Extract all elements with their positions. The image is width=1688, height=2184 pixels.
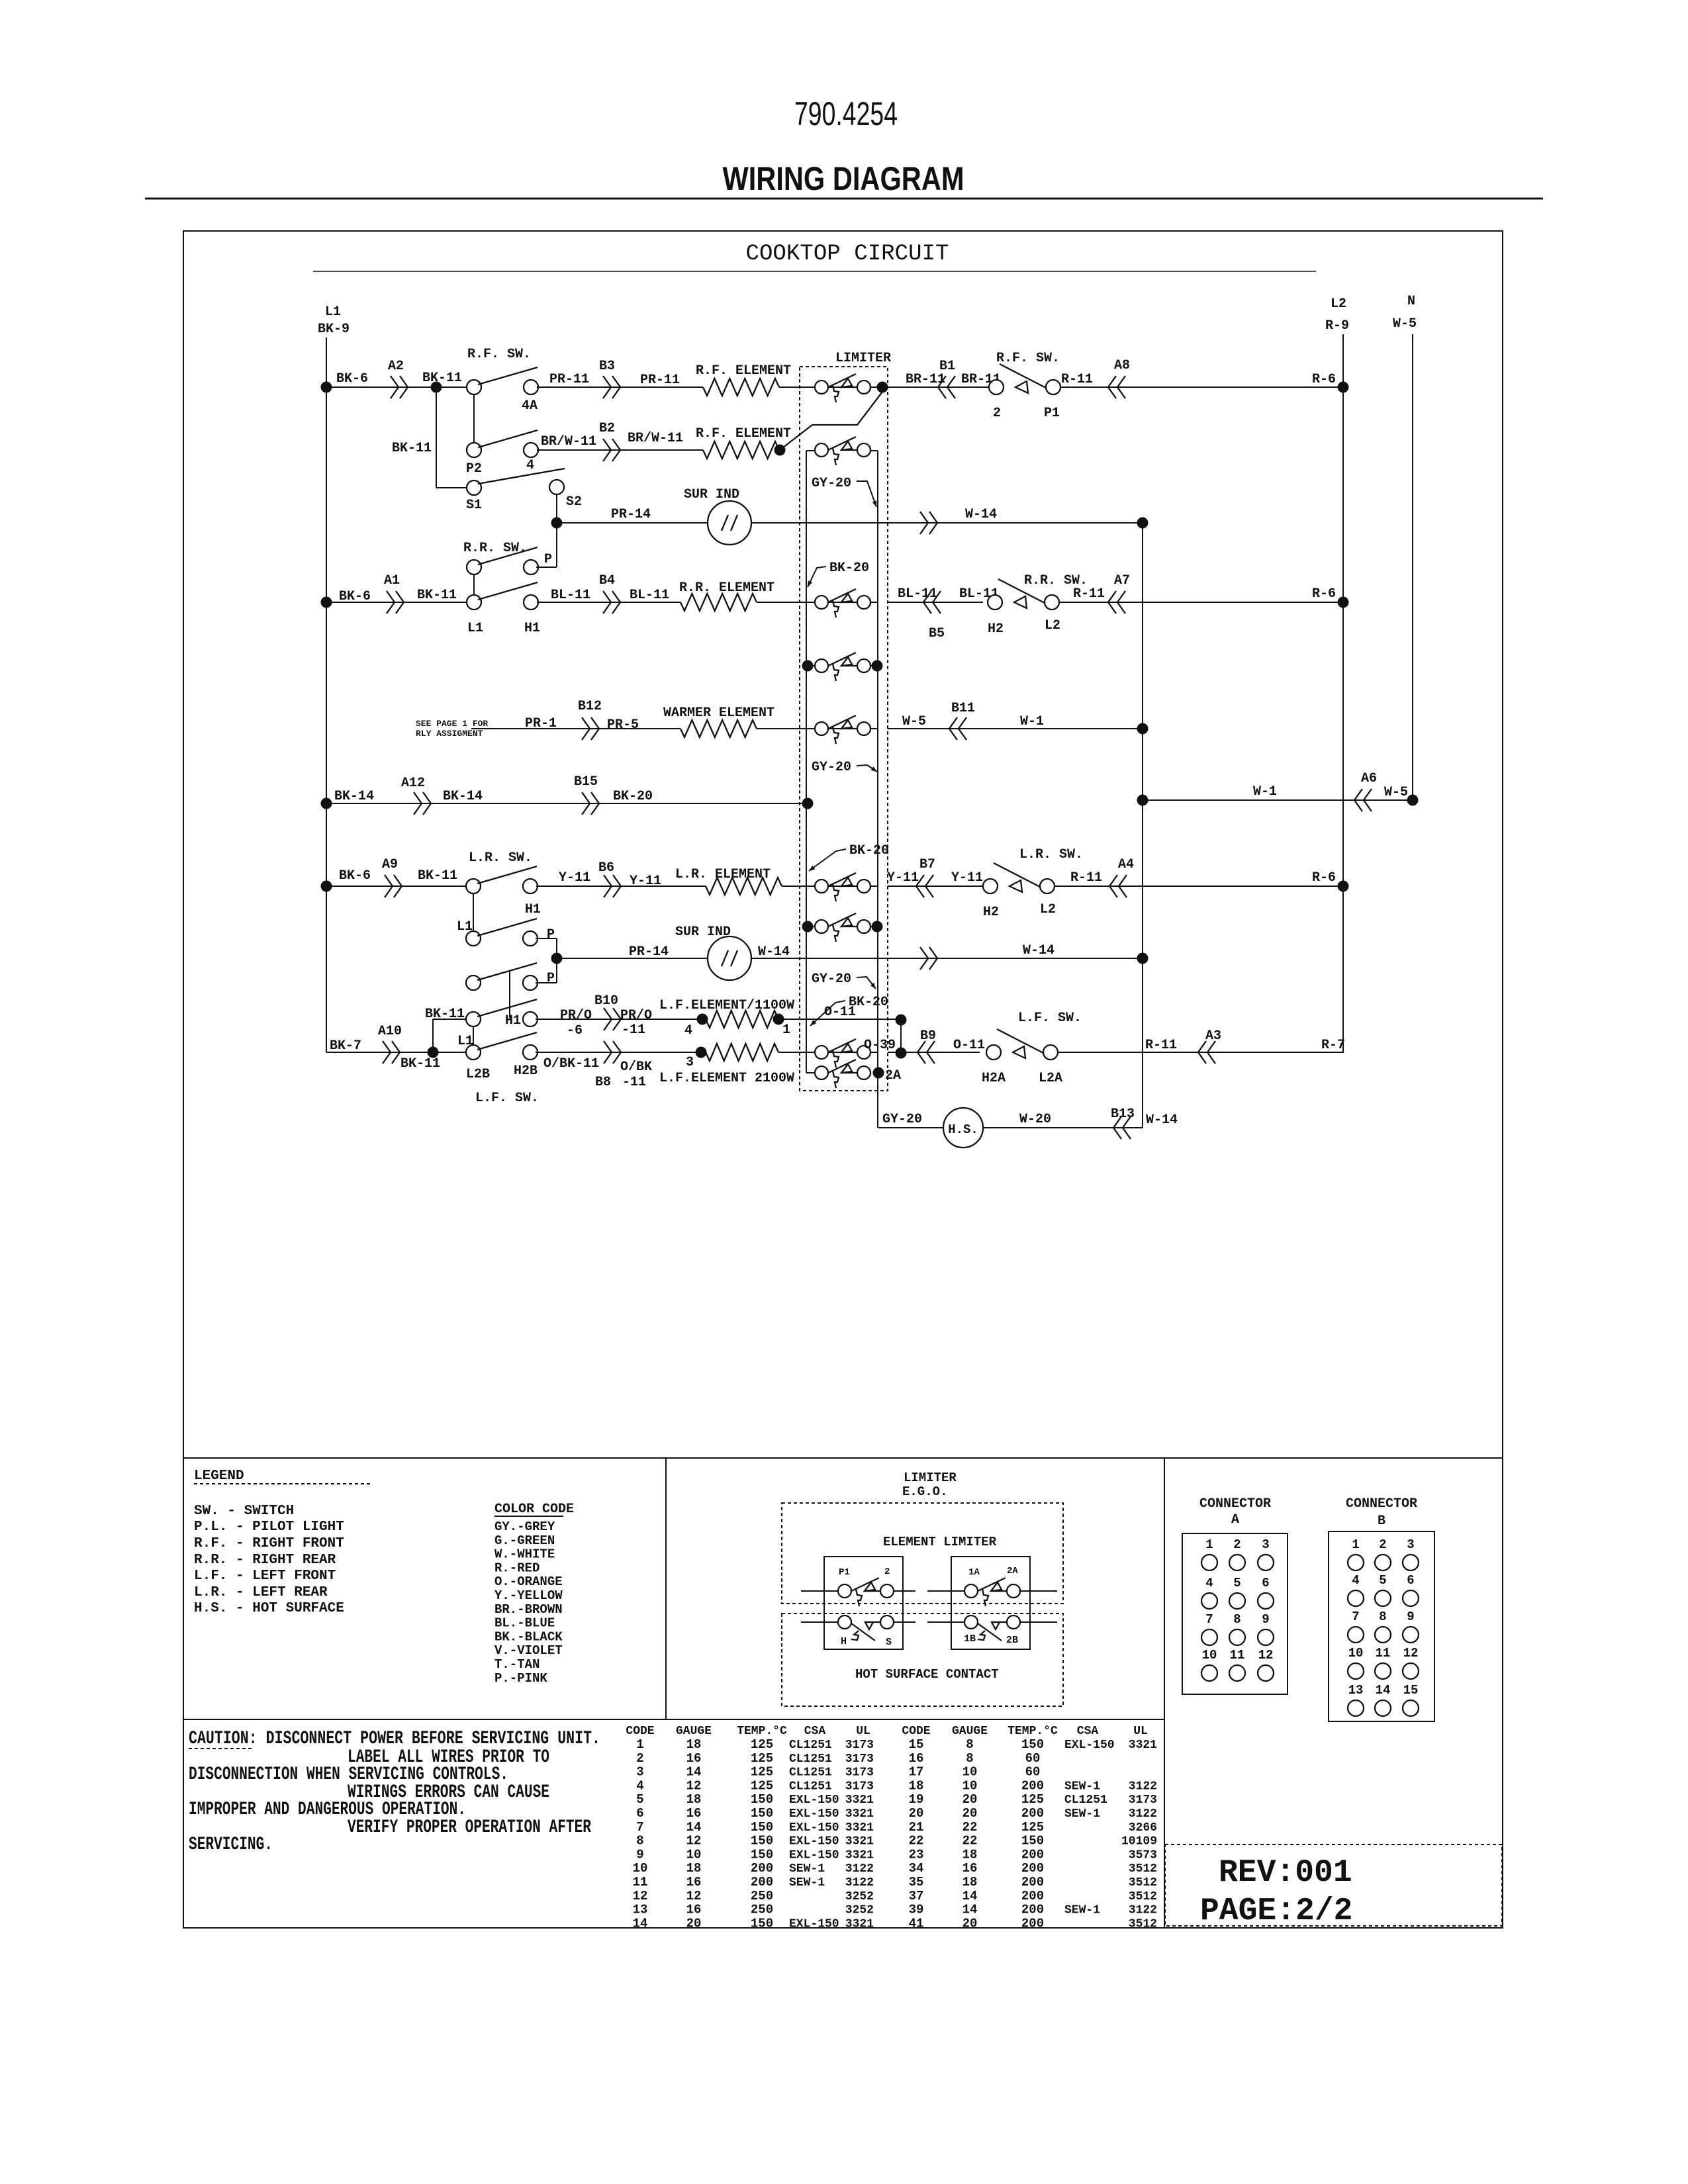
- svg-text:CONNECTOR: CONNECTOR: [1199, 1496, 1271, 1512]
- svg-text:R-11: R-11: [1061, 372, 1093, 387]
- svg-text:CODE: CODE: [626, 1725, 654, 1738]
- connector A1: [387, 591, 404, 614]
- svg-text:125: 125: [751, 1778, 773, 1793]
- svg-text:3173: 3173: [845, 1780, 874, 1793]
- svg-text:150: 150: [751, 1847, 773, 1862]
- svg-text:R.R. - RIGHT REAR: R.R. - RIGHT REAR: [194, 1553, 336, 1568]
- svg-text:1: 1: [782, 1023, 790, 1038]
- svg-text:SERVICING.: SERVICING.: [189, 1835, 273, 1855]
- svg-text:L1: L1: [457, 1034, 473, 1049]
- svg-text:125: 125: [751, 1765, 773, 1780]
- svg-text:A3: A3: [1205, 1028, 1221, 1044]
- svg-text:L2: L2: [1331, 296, 1346, 312]
- svg-text:200: 200: [1021, 1847, 1044, 1862]
- svg-text:3: 3: [636, 1765, 643, 1780]
- connector B2: [603, 439, 620, 461]
- svg-text:250: 250: [751, 1889, 773, 1903]
- svg-text:W-5: W-5: [1384, 785, 1408, 800]
- junction BR-11 row1: [877, 382, 888, 393]
- svg-text:BK-11: BK-11: [400, 1056, 440, 1071]
- switch R.R. SW. main contacts L1/H1: [467, 595, 481, 610]
- svg-text:BK-9: BK-9: [318, 322, 350, 337]
- svg-text:GAUGE: GAUGE: [676, 1725, 712, 1738]
- wire GY-20 to H.S.: [878, 1127, 944, 1128]
- svg-text:CL1251: CL1251: [789, 1780, 832, 1793]
- svg-text:B2: B2: [599, 421, 615, 436]
- wire BR/W-11 row2: [537, 449, 703, 451]
- svg-text:L2A: L2A: [1039, 1071, 1062, 1086]
- indicator H.S. hot surface lamp: [943, 1108, 983, 1148]
- svg-text:15: 15: [1403, 1683, 1419, 1698]
- svg-text:R-11: R-11: [1070, 870, 1102, 886]
- limiter inner box right edge: [877, 451, 878, 1128]
- junction pin 4 L.F.1100: [697, 1014, 708, 1025]
- wire mid W bus vertical: [1142, 523, 1143, 1128]
- junction 2A: [873, 1068, 884, 1079]
- svg-text:-6: -6: [567, 1023, 583, 1038]
- switch S1/S2: [467, 480, 481, 495]
- wire O-11 L.F.1100 output: [778, 1019, 901, 1020]
- connector B9: [917, 1041, 935, 1064]
- connector A8: [1108, 376, 1125, 398]
- svg-text:125: 125: [751, 1751, 773, 1766]
- svg-text:3: 3: [1262, 1537, 1269, 1552]
- svg-text:L1: L1: [325, 304, 341, 320]
- limiter contact warmer: [815, 722, 828, 735]
- svg-text:4: 4: [526, 458, 534, 473]
- wire stub 2A left: [806, 1072, 816, 1073]
- svg-text:CL1251: CL1251: [789, 1752, 832, 1766]
- svg-text:12: 12: [1403, 1646, 1419, 1661]
- wire BK-6 L.R.: [326, 886, 466, 887]
- svg-text:P1: P1: [1044, 406, 1060, 421]
- svg-text:A1: A1: [384, 573, 400, 588]
- junction L1/BK-6 row1: [321, 382, 332, 393]
- connector A10: [383, 1041, 400, 1064]
- svg-text:18: 18: [686, 1861, 702, 1876]
- svg-text:R-11: R-11: [1073, 586, 1105, 602]
- svg-text:BK-20: BK-20: [613, 789, 653, 804]
- svg-text:R.F. ELEMENT: R.F. ELEMENT: [696, 426, 791, 441]
- svg-text:7: 7: [1352, 1610, 1359, 1624]
- svg-text:3512: 3512: [1129, 1862, 1157, 1876]
- connector B5: [923, 591, 941, 614]
- wire BK-7 from L1 bus: [326, 1052, 466, 1053]
- svg-text:Y.-YELLOW: Y.-YELLOW: [494, 1588, 563, 1603]
- svg-text:BK-11: BK-11: [417, 588, 457, 603]
- svg-text:BK.-BLACK: BK.-BLACK: [494, 1629, 563, 1644]
- svg-text:5: 5: [1233, 1576, 1241, 1590]
- svg-text:200: 200: [751, 1861, 773, 1876]
- wire W-1 to N bus: [1143, 799, 1413, 801]
- svg-text:EXL-150: EXL-150: [789, 1794, 839, 1807]
- svg-text:23: 23: [909, 1847, 924, 1862]
- svg-text:PR/O: PR/O: [560, 1008, 592, 1023]
- svg-text:Y-11: Y-11: [630, 874, 661, 889]
- pilot lamp SUR IND (bottom): [708, 936, 751, 980]
- svg-text:6: 6: [1262, 1576, 1269, 1590]
- svg-text:3122: 3122: [845, 1862, 874, 1876]
- wire stub row5 right: [870, 665, 878, 666]
- svg-text:PR-14: PR-14: [629, 944, 669, 960]
- wire R-11/R-6 L.R.: [1055, 886, 1343, 887]
- svg-text:2A: 2A: [885, 1068, 901, 1083]
- svg-text:H2: H2: [988, 621, 1004, 637]
- junction O-39: [896, 1048, 907, 1059]
- wire W-20 from H.S.: [983, 1127, 1143, 1128]
- svg-text:Y-11: Y-11: [951, 870, 983, 886]
- junction row10 left: [802, 921, 814, 933]
- svg-text:EXL-150: EXL-150: [789, 1807, 839, 1821]
- wire stub row10 right: [870, 926, 878, 927]
- wire L2 bus vertical: [1342, 334, 1344, 1053]
- wire W-14 row11: [751, 958, 1143, 959]
- switch R.F. SW. pilot side, pins 2 / P1: [989, 380, 1004, 394]
- title underline: [145, 198, 1543, 200]
- svg-text:B7: B7: [919, 857, 935, 872]
- connector B4: [603, 591, 620, 614]
- svg-text:B5: B5: [929, 626, 945, 641]
- svg-text:GY-20: GY-20: [812, 476, 851, 491]
- svg-text:RLY ASSIGMENT: RLY ASSIGMENT: [416, 729, 483, 739]
- svg-text:VERIFY PROPER OPERATION AFTER: VERIFY PROPER OPERATION AFTER: [348, 1817, 591, 1838]
- junction W-14 bottom on mid bus: [1137, 953, 1149, 964]
- wire BK-6 R.R.: [326, 602, 467, 603]
- svg-text:BK-6: BK-6: [336, 371, 368, 387]
- svg-text:10: 10: [962, 1765, 978, 1780]
- svg-text:3173: 3173: [845, 1752, 874, 1766]
- svg-text:16: 16: [686, 1875, 702, 1889]
- junction O-11 drop top: [896, 1015, 907, 1026]
- svg-text:TEMP.°C: TEMP.°C: [1008, 1725, 1058, 1738]
- svg-text:B13: B13: [1111, 1107, 1135, 1122]
- svg-text:18: 18: [686, 1737, 702, 1752]
- svg-text:10109: 10109: [1121, 1835, 1157, 1848]
- svg-text:150: 150: [751, 1820, 773, 1835]
- svg-text:GY.-GREY: GY.-GREY: [494, 1520, 555, 1534]
- svg-text:2B: 2B: [1006, 1635, 1018, 1646]
- wire O-11 drop: [900, 1020, 902, 1053]
- junction pin 3 L.F.2100: [696, 1047, 707, 1058]
- svg-text:A2: A2: [388, 359, 404, 374]
- connector B12: [582, 717, 599, 740]
- svg-text:16: 16: [686, 1751, 702, 1766]
- svg-text:SEW-1: SEW-1: [789, 1876, 825, 1889]
- wire element to limiter row1: [779, 387, 877, 388]
- svg-text:BK-11: BK-11: [422, 371, 462, 386]
- svg-text:4: 4: [1205, 1576, 1213, 1590]
- svg-text:13: 13: [1348, 1683, 1364, 1698]
- junction BK-11 L.F.: [428, 1047, 439, 1058]
- svg-text:GAUGE: GAUGE: [952, 1725, 988, 1738]
- switch R.F. SW. main contacts: [467, 380, 481, 394]
- svg-text:GY-20: GY-20: [812, 972, 851, 987]
- svg-text:8: 8: [1233, 1612, 1241, 1627]
- svg-text:3573: 3573: [1129, 1848, 1157, 1862]
- svg-text:14: 14: [962, 1889, 978, 1903]
- svg-text:A7: A7: [1114, 573, 1130, 588]
- svg-text:L.F. SW.: L.F. SW.: [1018, 1011, 1082, 1026]
- svg-text:16: 16: [962, 1861, 978, 1876]
- svg-text:34: 34: [909, 1861, 924, 1876]
- svg-text:COOKTOP CIRCUIT: COOKTOP CIRCUIT: [746, 242, 949, 267]
- svg-text:2: 2: [884, 1567, 890, 1577]
- svg-text:14: 14: [962, 1903, 978, 1917]
- wire R-11/R-6 R.R.: [1059, 602, 1343, 603]
- svg-text:3252: 3252: [845, 1890, 874, 1903]
- svg-text:20: 20: [962, 1792, 978, 1807]
- svg-text:PR-5: PR-5: [607, 717, 639, 733]
- wire element to limiter R.R.: [757, 602, 877, 603]
- svg-text:W-5: W-5: [902, 714, 926, 729]
- svg-text:39: 39: [909, 1903, 924, 1917]
- svg-text:L.R. SW.: L.R. SW.: [469, 850, 532, 866]
- svg-text:BL-11: BL-11: [898, 586, 937, 602]
- svg-text:200: 200: [1021, 1916, 1044, 1931]
- svg-text:L.F.ELEMENT/1100W: L.F.ELEMENT/1100W: [659, 998, 794, 1013]
- svg-text:12: 12: [686, 1889, 702, 1903]
- svg-text:L.F.ELEMENT 2100W: L.F.ELEMENT 2100W: [659, 1071, 794, 1086]
- svg-text:150: 150: [751, 1834, 773, 1848]
- junction L1/BK-6 R.R.: [321, 597, 332, 608]
- svg-text:12: 12: [686, 1834, 702, 1848]
- svg-text:200: 200: [1021, 1889, 1044, 1903]
- wire W-5/W-1 warmer: [888, 728, 1143, 729]
- svg-text:CL1251: CL1251: [789, 1766, 832, 1780]
- svg-text:BR.-BROWN: BR.-BROWN: [494, 1602, 563, 1617]
- svg-text:L.R. - LEFT REAR: L.R. - LEFT REAR: [194, 1585, 328, 1600]
- wire W-14 row3: [751, 522, 1143, 523]
- switch L.R. SW. lamp contacts P lower: [466, 976, 481, 990]
- connector B13: [1113, 1116, 1131, 1139]
- svg-text:18: 18: [962, 1847, 978, 1862]
- svg-text:BL-11: BL-11: [630, 588, 669, 603]
- svg-text:S: S: [886, 1637, 892, 1648]
- svg-text:L.F. - LEFT FRONT: L.F. - LEFT FRONT: [194, 1569, 336, 1584]
- svg-text:WARMER ELEMENT: WARMER ELEMENT: [663, 705, 774, 721]
- svg-text:HOT SURFACE CONTACT: HOT SURFACE CONTACT: [855, 1667, 999, 1682]
- svg-text:H.S. - HOT SURFACE: H.S. - HOT SURFACE: [194, 1601, 344, 1616]
- svg-text:A8: A8: [1114, 358, 1130, 373]
- svg-text:V.-VIOLET: V.-VIOLET: [494, 1643, 563, 1658]
- svg-text:A9: A9: [382, 857, 398, 872]
- svg-text:LIMITER: LIMITER: [904, 1471, 957, 1485]
- svg-text:10: 10: [686, 1847, 702, 1862]
- EGO contact H-S: [838, 1615, 851, 1629]
- limiter contact 2A: [815, 1066, 828, 1079]
- svg-text:PAGE:2/2: PAGE:2/2: [1200, 1893, 1352, 1929]
- svg-text:12: 12: [686, 1778, 702, 1793]
- svg-text:18: 18: [909, 1778, 924, 1793]
- switch R.F. SW. P2 contacts: [467, 443, 481, 457]
- gang link L.R. SW.: [473, 893, 474, 931]
- svg-text:PR-14: PR-14: [611, 507, 651, 522]
- connector A7: [1108, 591, 1125, 614]
- junction pin 1 L.F.1100: [773, 1014, 784, 1025]
- svg-text:P: P: [547, 927, 555, 942]
- wire stub row5 left: [806, 665, 816, 666]
- svg-text:BR/W-11: BR/W-11: [541, 434, 596, 449]
- connector W-14 (top): [920, 512, 937, 534]
- limiter contact L.F.2100: [815, 1046, 828, 1059]
- svg-text:B12: B12: [578, 699, 602, 714]
- svg-text:20: 20: [686, 1916, 702, 1931]
- svg-text:150: 150: [1021, 1834, 1044, 1848]
- svg-text:22: 22: [962, 1834, 978, 1848]
- svg-text:W-1: W-1: [1253, 784, 1277, 799]
- wire element to limiter L.R.: [782, 886, 877, 887]
- svg-text:3: 3: [686, 1055, 694, 1070]
- wire element to limiter L.F.2100: [778, 1052, 877, 1053]
- svg-text:SEW-1: SEW-1: [1064, 1904, 1100, 1917]
- svg-text:GY-20: GY-20: [882, 1112, 922, 1127]
- svg-text:BK-11: BK-11: [392, 441, 432, 456]
- svg-text:16: 16: [686, 1903, 702, 1917]
- EGO wire stubs top row: [801, 1590, 838, 1592]
- EGO contact P1-2: [838, 1584, 851, 1598]
- gang link R.R. SW.: [473, 574, 475, 595]
- svg-text:B4: B4: [599, 573, 615, 588]
- svg-text:R-9: R-9: [1325, 318, 1349, 334]
- svg-text:SEW-1: SEW-1: [1064, 1780, 1100, 1793]
- svg-text:60: 60: [1025, 1765, 1041, 1780]
- svg-text:B10: B10: [594, 993, 618, 1009]
- svg-text:3173: 3173: [845, 1739, 874, 1752]
- svg-text:1B: 1B: [964, 1633, 976, 1645]
- svg-text:3173: 3173: [845, 1766, 874, 1780]
- wire BL-11 R.R.: [537, 602, 680, 603]
- svg-text:R-11: R-11: [1145, 1038, 1177, 1053]
- switch L.F. SW. L2B/H2B contacts: [466, 1045, 481, 1060]
- svg-text:150: 150: [1021, 1737, 1044, 1752]
- wire BL-11 right R.R.: [888, 602, 983, 603]
- svg-text:21: 21: [909, 1820, 924, 1835]
- svg-text:W-20: W-20: [1019, 1112, 1051, 1127]
- connector B8: [604, 1041, 621, 1064]
- svg-text:12: 12: [1258, 1648, 1274, 1662]
- junction BK-11 row1: [431, 382, 442, 393]
- svg-text:10: 10: [1348, 1646, 1364, 1661]
- svg-text:18: 18: [686, 1792, 702, 1807]
- wire R-11/R-7 L.F.: [1058, 1052, 1343, 1053]
- svg-text:9: 9: [1262, 1612, 1269, 1627]
- svg-text:A6: A6: [1361, 771, 1377, 786]
- svg-text:125: 125: [1021, 1820, 1044, 1835]
- connector B7: [916, 875, 933, 897]
- svg-text:B11: B11: [951, 701, 975, 716]
- svg-text:14: 14: [1376, 1683, 1391, 1698]
- wire PR-14 row11: [562, 958, 708, 959]
- svg-text:4: 4: [684, 1023, 692, 1038]
- svg-text:4: 4: [1352, 1573, 1359, 1588]
- wire L1 bus vertical: [326, 338, 327, 1052]
- svg-text:1A: 1A: [968, 1567, 980, 1578]
- junction L1/BK-6 L.R.: [321, 881, 332, 892]
- svg-text:BK-14: BK-14: [334, 789, 374, 804]
- svg-text:PR-11: PR-11: [640, 373, 680, 388]
- svg-text:3321: 3321: [845, 1917, 874, 1931]
- wire O-11 right L.F.: [901, 1052, 980, 1053]
- wire P upper to junction: [536, 938, 557, 939]
- svg-text:W-14: W-14: [1146, 1113, 1178, 1128]
- resistor R.F. ELEMENT (top): [703, 379, 779, 396]
- wire stub row10 left: [806, 926, 816, 927]
- wire P to SUR IND junction: [536, 567, 557, 568]
- junction W-1 warmer on mid bus: [1137, 723, 1149, 735]
- svg-text:ELEMENT LIMITER: ELEMENT LIMITER: [883, 1535, 997, 1549]
- EGO dashed box HOT SURFACE CONTACT: [782, 1614, 1063, 1706]
- svg-text:-11: -11: [622, 1023, 645, 1038]
- svg-text:37: 37: [909, 1889, 924, 1903]
- svg-text:8: 8: [966, 1751, 973, 1766]
- wire BR-11 row1 to switch: [888, 387, 989, 388]
- svg-text:W-14: W-14: [965, 507, 997, 522]
- svg-text:EXL-150: EXL-150: [789, 1848, 839, 1862]
- junction W-5 on N bus: [1407, 795, 1419, 806]
- limiter contact row1: [815, 381, 828, 394]
- limiter contact row2: [815, 443, 828, 457]
- svg-text:LIMITER: LIMITER: [835, 351, 891, 366]
- EGO dashed box ELEMENT LIMITER: [782, 1503, 1063, 1604]
- svg-text:5: 5: [1379, 1573, 1386, 1588]
- svg-text:5: 5: [636, 1792, 643, 1807]
- junction R-6 row1 on L2 bus: [1338, 382, 1349, 393]
- svg-text:6: 6: [636, 1806, 643, 1821]
- svg-text:SUR IND: SUR IND: [675, 925, 731, 940]
- switch L.R. SW. lamp contacts L1/P upper: [466, 931, 481, 946]
- svg-text:14: 14: [686, 1765, 702, 1780]
- svg-text:Y-11: Y-11: [887, 870, 919, 886]
- connector B10: [604, 1008, 621, 1030]
- svg-text:3266: 3266: [1129, 1821, 1157, 1835]
- svg-text:35: 35: [909, 1875, 924, 1889]
- junction row5 right: [872, 660, 883, 672]
- svg-text:W-5: W-5: [1393, 316, 1417, 332]
- junction SUR IND 2 feed: [551, 953, 563, 964]
- svg-text:SW. - SWITCH: SW. - SWITCH: [194, 1504, 294, 1519]
- svg-text:20: 20: [962, 1806, 978, 1821]
- svg-text:8: 8: [966, 1737, 973, 1752]
- svg-text:17: 17: [909, 1765, 924, 1780]
- svg-text:T.-TAN: T.-TAN: [494, 1657, 539, 1672]
- svg-text:CL1251: CL1251: [789, 1739, 832, 1752]
- svg-text:14: 14: [686, 1820, 702, 1835]
- svg-text:B9: B9: [920, 1028, 936, 1044]
- svg-text:R.F. SW.: R.F. SW.: [996, 351, 1060, 366]
- svg-text:O/BK: O/BK: [620, 1060, 652, 1075]
- svg-text:11: 11: [1376, 1646, 1391, 1661]
- svg-text:14: 14: [633, 1916, 648, 1931]
- svg-text:EXL-150: EXL-150: [789, 1835, 839, 1848]
- svg-text:BL-11: BL-11: [551, 588, 590, 603]
- svg-text:8: 8: [1379, 1610, 1386, 1624]
- junction R-6 R.R. on L2 bus: [1338, 597, 1349, 608]
- junction element row2 output: [774, 445, 786, 456]
- connector A12: [414, 792, 431, 815]
- svg-text:R.F. SW.: R.F. SW.: [467, 347, 531, 362]
- svg-text:COLOR CODE: COLOR CODE: [494, 1502, 574, 1517]
- svg-text:200: 200: [751, 1875, 773, 1889]
- svg-text:E.G.O.: E.G.O.: [902, 1484, 947, 1499]
- pilot lamp SUR IND (top): [708, 501, 751, 545]
- svg-text:18: 18: [962, 1875, 978, 1889]
- wire O/BK-11 L.F.2100: [536, 1052, 701, 1053]
- svg-text:3321: 3321: [845, 1821, 874, 1835]
- svg-text:PR/O: PR/O: [620, 1008, 652, 1023]
- svg-text:REV:001: REV:001: [1219, 1855, 1352, 1891]
- svg-text:125: 125: [1021, 1792, 1044, 1807]
- svg-text:B1: B1: [939, 359, 955, 374]
